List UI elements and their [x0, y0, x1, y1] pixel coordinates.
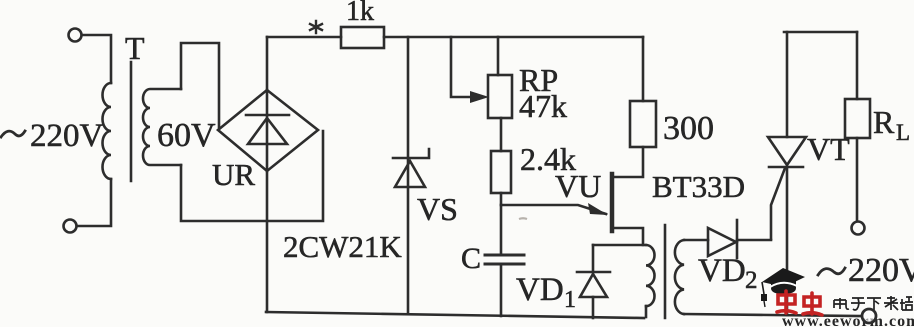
svg-text:220V: 220V — [30, 118, 104, 154]
svg-text:VS: VS — [417, 191, 458, 227]
svg-text:UR: UR — [212, 157, 255, 192]
svg-text:C: C — [461, 242, 481, 275]
svg-text:2: 2 — [745, 267, 758, 294]
svg-text:2CW21K: 2CW21K — [283, 229, 402, 264]
svg-text:L: L — [896, 120, 910, 145]
svg-text:BT33D: BT33D — [652, 169, 745, 204]
svg-text:T: T — [125, 30, 145, 66]
svg-text:1: 1 — [564, 287, 576, 313]
svg-text:www.eeworm.com: www.eeworm.com — [782, 313, 914, 327]
svg-text:1k: 1k — [346, 0, 374, 27]
svg-text:R: R — [873, 104, 895, 140]
svg-text:300: 300 — [663, 110, 714, 147]
svg-text:VU: VU — [555, 168, 601, 204]
svg-text:60V: 60V — [157, 117, 216, 154]
svg-text:VD: VD — [698, 253, 746, 289]
svg-text:47k: 47k — [519, 88, 567, 124]
svg-text:VD: VD — [516, 272, 564, 308]
svg-text:VT: VT — [807, 131, 850, 167]
svg-text:220V: 220V — [848, 252, 914, 289]
